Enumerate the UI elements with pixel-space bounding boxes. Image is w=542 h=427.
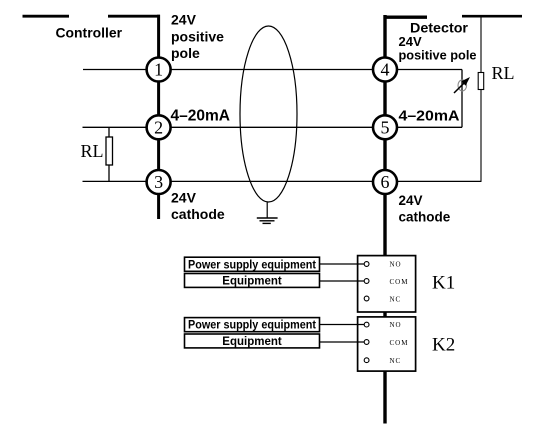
svg-text:4–20mA: 4–20mA	[399, 108, 460, 125]
svg-text:24V: 24V	[399, 193, 423, 208]
terminal 6	[373, 170, 397, 194]
svg-text:positive pole: positive pole	[399, 48, 477, 63]
svg-text:6: 6	[381, 172, 390, 192]
resistor RL (left)	[106, 137, 113, 165]
wire: 24V+ line (terminal 1 to terminal 4, loop top to RL corner)	[83, 69, 462, 71]
wire: PSU2 to K2 NO	[320, 324, 365, 326]
terminal 2	[147, 115, 171, 139]
svg-text:RL: RL	[81, 141, 104, 161]
terminal 5	[373, 115, 397, 139]
box: Power supply equipment (lower)	[185, 318, 320, 332]
svg-text:COM: COM	[390, 278, 409, 286]
svg-text:4–20mA: 4–20mA	[171, 108, 231, 125]
trimmer arrow symbol (adjustable)	[454, 77, 470, 93]
box: Equipment (upper)	[185, 274, 320, 288]
svg-text:24V: 24V	[171, 12, 197, 28]
svg-text:Power supply equipment: Power supply equipment	[188, 320, 316, 332]
svg-text:4: 4	[381, 60, 390, 80]
svg-text:2: 2	[154, 117, 163, 137]
wire: detector bus lower (below K2)	[383, 371, 386, 424]
svg-text:NO: NO	[390, 321, 402, 329]
K2 contact NC	[364, 358, 369, 363]
box: Equipment (lower)	[185, 334, 320, 348]
svg-text:positive: positive	[171, 28, 224, 44]
ground symbol	[257, 218, 278, 223]
svg-text:Equipment: Equipment	[222, 276, 282, 288]
relay K2 box	[358, 317, 416, 371]
svg-text:K2: K2	[432, 335, 455, 356]
wire: right RL branch vertical lower	[480, 90, 482, 182]
wire: PSU1 to K1 NO	[320, 263, 365, 265]
svg-text:K1: K1	[432, 273, 455, 294]
svg-text:NC: NC	[390, 357, 402, 365]
box: Power supply equipment (upper)	[185, 257, 320, 271]
K1 contact COM	[364, 279, 369, 284]
wire: EQ1 to K1 COM	[320, 280, 365, 282]
svg-text:1: 1	[154, 60, 163, 80]
K1 contact NC	[364, 296, 369, 301]
ground stem wire	[266, 202, 268, 218]
wire: detector bus stub between K1 and K2	[383, 311, 386, 318]
K1 contact NO	[364, 262, 369, 267]
wire: 4-20mA line (terminal 2 to terminal 5, loop bottom)	[83, 126, 463, 128]
wire: detector top bar right segment	[462, 15, 522, 18]
svg-text:cathode: cathode	[399, 210, 451, 225]
relay K1 box	[358, 256, 416, 312]
svg-text:pole: pole	[171, 45, 200, 61]
svg-text:Power supply equipment: Power supply equipment	[188, 259, 316, 271]
svg-text:Controller: Controller	[56, 25, 123, 41]
svg-text:5: 5	[381, 117, 390, 137]
wire: controller bus (thick vertical)	[157, 15, 160, 219]
K2 contact COM	[364, 340, 369, 345]
terminal 3	[147, 170, 171, 194]
wire: EQ2 to K2 COM	[320, 341, 365, 343]
svg-text:NC: NC	[390, 296, 402, 304]
svg-text:24V: 24V	[171, 189, 197, 205]
svg-text:cathode: cathode	[171, 206, 225, 222]
wire: detector top bar left segment	[384, 16, 428, 19]
shield ellipse (cable)	[240, 26, 297, 202]
terminal 4	[373, 58, 397, 82]
svg-text:NO: NO	[390, 261, 402, 269]
terminal 1	[147, 58, 171, 82]
wire: detector bus upper (thick vertical)	[383, 15, 386, 256]
wire: controller top bar right segment	[108, 15, 160, 18]
wire: controller top bar left segment	[23, 15, 70, 18]
wire: left RL branch vertical	[108, 127, 110, 182]
wire: trimmer branch vertical (loop right edge)	[461, 70, 463, 128]
wire: 24V- line (terminal 3 to terminal 6 and right RL branch)	[83, 180, 482, 182]
svg-text:RL: RL	[492, 63, 515, 83]
resistor RL (right)	[478, 73, 484, 90]
svg-text:COM: COM	[390, 339, 409, 347]
svg-text:3: 3	[154, 172, 163, 192]
svg-text:Equipment: Equipment	[222, 336, 282, 348]
K2 contact NO	[364, 322, 369, 327]
wire: right RL branch vertical upper	[480, 16, 482, 73]
